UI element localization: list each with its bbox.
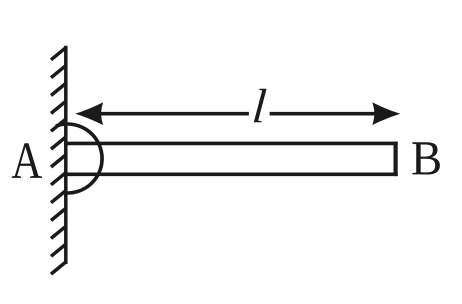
- wall hatch 6: [51, 137, 66, 150]
- label l (length): [254, 89, 267, 123]
- wall hatch 10: [51, 208, 66, 221]
- wall hatch 8: [51, 172, 66, 185]
- wall: [51, 46, 66, 274]
- left arrowhead: [75, 102, 103, 125]
- wall hatch 5: [51, 119, 66, 132]
- wall hatch 9: [51, 190, 66, 203]
- wall hatch 1: [51, 47, 66, 60]
- wall hatch 11: [51, 226, 66, 239]
- label B: [412, 142, 440, 174]
- wall hatch 7: [51, 154, 66, 167]
- pivot arc at A: [56, 124, 102, 193]
- dimension arrow shaft left: [92, 112, 249, 116]
- dimension arrow shaft right: [270, 112, 382, 116]
- right arrowhead: [372, 102, 400, 125]
- wall hatch 13: [51, 262, 66, 275]
- label A: [12, 143, 42, 178]
- wall hatch 3: [51, 83, 66, 96]
- wall hatch 12: [51, 244, 66, 257]
- wall hatch 4: [51, 101, 66, 114]
- wall vertical line: [64, 46, 68, 264]
- rod AB: [64, 142, 398, 177]
- wall hatch 2: [51, 65, 66, 78]
